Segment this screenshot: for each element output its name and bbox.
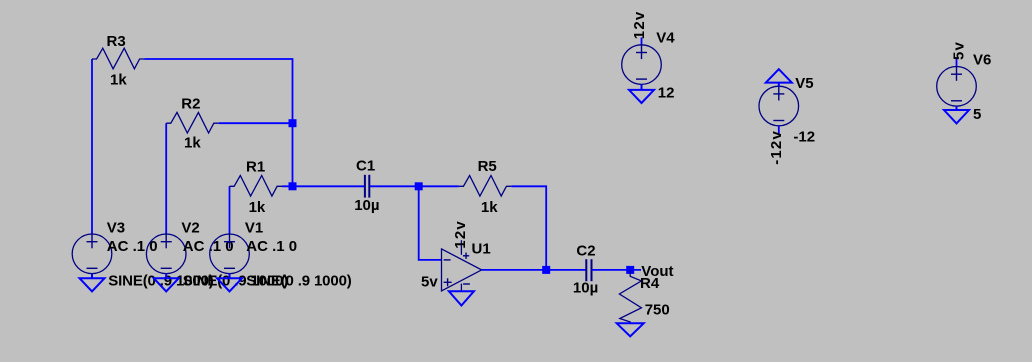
svg-text:1k: 1k — [481, 199, 498, 216]
voltage source V1 — [210, 234, 250, 274]
wire — [370, 185, 459, 187]
svg-text:V2: V2 — [181, 219, 199, 236]
wire — [165, 123, 167, 234]
svg-text:5v: 5v — [951, 41, 968, 60]
junction — [415, 182, 423, 190]
junction — [289, 119, 297, 127]
svg-text:V6: V6 — [973, 52, 991, 69]
svg-text:V3: V3 — [107, 219, 125, 236]
svg-text:1k: 1k — [110, 72, 127, 89]
svg-text:5v: 5v — [421, 274, 438, 291]
wire — [482, 269, 587, 271]
ground — [617, 323, 644, 336]
svg-text:V4: V4 — [656, 30, 675, 47]
svg-text:R5: R5 — [478, 158, 497, 175]
svg-text:-12: -12 — [793, 128, 815, 145]
svg-text:AC .1 0: AC .1 0 — [246, 238, 297, 255]
svg-text:R4: R4 — [640, 275, 660, 292]
ground — [766, 69, 792, 86]
capacitor C1 — [365, 175, 369, 198]
svg-text:V5: V5 — [795, 75, 813, 92]
svg-text:5: 5 — [973, 106, 981, 123]
voltage source V5 — [759, 86, 799, 134]
svg-text:SINE(0 .9 1000): SINE(0 .9 1000) — [246, 273, 351, 290]
ground — [944, 106, 969, 123]
wire — [511, 186, 546, 270]
svg-text:12v: 12v — [452, 220, 469, 249]
wire — [419, 186, 442, 260]
resistor R2 — [166, 112, 219, 133]
resistor R5 — [459, 176, 512, 197]
wire — [145, 59, 293, 186]
svg-text:1k: 1k — [249, 199, 266, 216]
op-amp U1 — [442, 240, 482, 291]
resistor R1 — [230, 176, 283, 197]
wire — [219, 122, 293, 124]
ground — [629, 84, 654, 103]
svg-text:U1: U1 — [472, 241, 491, 258]
junction — [542, 266, 550, 274]
resistor R3 — [92, 48, 145, 69]
svg-text:R3: R3 — [107, 33, 126, 50]
ground — [154, 274, 179, 292]
ground — [217, 274, 242, 292]
svg-text:V1: V1 — [245, 219, 263, 236]
ground — [449, 291, 474, 305]
svg-text:C2: C2 — [576, 242, 595, 259]
svg-text:10µ: 10µ — [573, 279, 598, 296]
resistor R4 — [619, 270, 641, 323]
voltage source V4 — [622, 38, 662, 85]
svg-text:AC .1 0: AC .1 0 — [107, 238, 158, 255]
junction — [289, 182, 297, 190]
svg-text:12: 12 — [658, 85, 675, 102]
wire — [592, 269, 641, 271]
svg-text:AC .1 0: AC .1 0 — [183, 238, 234, 255]
capacitor C2 — [586, 259, 591, 281]
junction — [626, 266, 634, 274]
svg-text:-12v: -12v — [768, 130, 785, 165]
svg-text:C1: C1 — [356, 157, 375, 174]
svg-text:12v: 12v — [631, 11, 648, 40]
voltage source V2 — [146, 234, 186, 274]
svg-text:1k: 1k — [184, 135, 201, 152]
ground — [80, 274, 105, 292]
voltage source V3 — [72, 234, 112, 274]
svg-text:750: 750 — [645, 301, 670, 318]
wire — [91, 59, 93, 234]
svg-text:R2: R2 — [181, 95, 200, 112]
svg-text:10µ: 10µ — [354, 197, 379, 214]
svg-text:R1: R1 — [246, 158, 265, 175]
voltage source V6 — [937, 59, 977, 107]
wire — [282, 185, 365, 187]
wire — [229, 186, 231, 234]
